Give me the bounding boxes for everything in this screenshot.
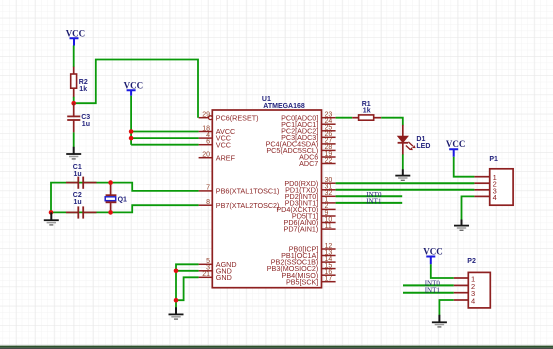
op-amp U1 body (ATMEGA168 ic outline) [212, 110, 321, 288]
svg-text:P2: P2 [467, 258, 476, 265]
junction dot GND pin3 [174, 269, 179, 274]
ground at crystal rails [44, 212, 59, 225]
wire PD1 to P1 pin3 [336, 189, 475, 191]
svg-text:PC6(RESET): PC6(RESET) [216, 113, 259, 122]
svg-text:P1: P1 [489, 156, 498, 163]
C3 value label 1u [82, 121, 90, 128]
ground under P1 [454, 220, 469, 231]
C2 name label [73, 192, 82, 199]
junction dot R2/C3 [71, 101, 76, 106]
ground under LED [395, 169, 410, 180]
svg-text:U1: U1 [262, 96, 271, 103]
R2 value label 1k [79, 86, 87, 93]
wire LED to ground [402, 154, 404, 169]
net label INT1 [366, 198, 382, 206]
connector P1 [474, 169, 513, 205]
wire INT0 net to P2 pin2 [403, 284, 454, 286]
ground below chip [169, 307, 184, 319]
svg-text:17: 17 [325, 276, 333, 283]
svg-text:VCC: VCC [66, 28, 86, 38]
U1 right pin numbers [325, 112, 333, 283]
C1 value label 1u [74, 171, 82, 178]
wire PD2 INT0 net stub [336, 195, 403, 197]
svg-text:LED: LED [416, 143, 430, 150]
wire PD3 INT1 net stub [336, 202, 403, 204]
C1 name label [73, 164, 82, 171]
svg-text:D1: D1 [416, 136, 425, 143]
wire VCC to R2 [73, 46, 75, 68]
svg-text:ATMEGA168: ATMEGA168 [263, 103, 305, 110]
R1 name label [362, 101, 371, 108]
U1 right pin names [266, 113, 319, 286]
junction dot crystal top [108, 180, 113, 185]
connector P2 [454, 272, 491, 308]
svg-text:29: 29 [202, 112, 210, 119]
supply VCC (top-left, feeds R2) [66, 28, 86, 45]
crystal Q1 [105, 183, 116, 213]
junction dot pin18 [129, 129, 134, 134]
resistor R1 [352, 115, 381, 120]
supply VCC (feeds P2 pin1) [423, 247, 443, 265]
wire C3 to ground [73, 132, 75, 147]
wire VCC to P2 pin1 [431, 264, 454, 278]
bottom window border [0, 346, 553, 348]
wire PC0 to R1 [336, 117, 353, 119]
svg-text:6: 6 [206, 139, 210, 146]
svg-text:4: 4 [471, 297, 475, 306]
svg-text:ADC7: ADC7 [299, 159, 318, 168]
svg-text:AREF: AREF [216, 153, 236, 162]
wire INT1 net to P2 pin3 [403, 292, 454, 294]
Q1 name label [118, 197, 127, 204]
wire VCC to P1 pin1 [454, 157, 475, 177]
supply VCC (feeds P1 pin1) [446, 139, 466, 157]
capacitor C2 (plates in bottom rail) [66, 206, 97, 218]
P2 name label [467, 258, 476, 265]
svg-text:VCC: VCC [446, 139, 466, 149]
wire P2 pin4 to ground [439, 300, 453, 315]
svg-text:20: 20 [202, 152, 210, 159]
D1 name label [416, 136, 425, 143]
wire junction to pin29 (reset net) [74, 60, 198, 118]
svg-text:PB6(XTAL1TOSC1): PB6(XTAL1TOSC1) [216, 187, 280, 196]
svg-text:7: 7 [206, 185, 210, 192]
crystal circuit: wire XTAL1 top rail [51, 183, 199, 213]
svg-text:1k: 1k [363, 107, 371, 114]
svg-text:INT1: INT1 [425, 287, 441, 295]
wire P1 pin4 to ground [462, 196, 475, 219]
P2 pin numbers [471, 275, 475, 306]
U1 value label ATMEGA168 [263, 103, 305, 110]
svg-text:PD7(AIN1): PD7(AIN1) [284, 225, 319, 234]
svg-text:C2: C2 [73, 192, 82, 199]
svg-text:1k: 1k [79, 86, 87, 93]
C2 value label 1u [74, 199, 82, 206]
svg-text:8: 8 [206, 199, 210, 206]
svg-text:1u: 1u [82, 121, 90, 128]
capacitor C3 [67, 103, 80, 132]
D1 value label LED [416, 143, 430, 150]
ground under P2 [432, 315, 447, 327]
svg-text:C3: C3 [81, 114, 90, 121]
U1 left pin stubs [199, 118, 213, 278]
svg-text:4: 4 [493, 193, 497, 202]
svg-text:C1: C1 [73, 164, 82, 171]
junction dot GND pin21 [174, 298, 179, 303]
net label INT1 at P2 [425, 287, 441, 295]
svg-text:Q1: Q1 [118, 197, 127, 204]
P1 name label [489, 156, 498, 163]
LED D1 [398, 125, 416, 155]
wire XTAL2 bottom rail [51, 205, 199, 212]
svg-text:INT1: INT1 [366, 198, 382, 206]
junction dot crystal bottom [108, 210, 113, 215]
wire R2 to junction [73, 97, 75, 103]
wire VCC to pins 18/4/6 [131, 96, 199, 145]
wire PD0 to P1 pin2 [336, 182, 475, 184]
resistor R2 [71, 67, 77, 98]
svg-text:VCC: VCC [216, 140, 231, 149]
svg-text:VCC: VCC [124, 80, 144, 90]
capacitor C1 (plates in top rail) [66, 177, 97, 189]
wire R1 to LED [381, 118, 403, 126]
svg-text:R2: R2 [79, 79, 88, 86]
junction dot crystal ground [49, 210, 54, 215]
U1 name label [262, 96, 271, 103]
net label INT0 at P2 [425, 280, 441, 288]
wire AGND/GND pins to ground [176, 264, 199, 308]
svg-text:1u: 1u [74, 199, 82, 206]
svg-text:PB5[SCK]: PB5[SCK] [286, 277, 318, 286]
C3 name label [81, 114, 90, 121]
svg-text:PB7(XTAL2TOSC2): PB7(XTAL2TOSC2) [216, 201, 280, 210]
svg-text:VCC: VCC [423, 247, 443, 257]
P1 pin numbers [493, 173, 497, 202]
ground under C3 [66, 147, 81, 159]
svg-text:11: 11 [325, 223, 332, 230]
U1 right pin stubs [322, 118, 336, 282]
svg-text:21: 21 [202, 271, 210, 278]
svg-text:22: 22 [325, 157, 333, 164]
U1 pin 29 reset inversion bubble [209, 116, 213, 120]
net label INT0 [366, 191, 382, 199]
U1 left pin numbers [202, 112, 210, 279]
junction dot pin4 [129, 136, 134, 141]
R1 value label 1k [363, 107, 371, 114]
svg-text:GND: GND [216, 273, 232, 282]
U1 left pin names [216, 113, 280, 282]
svg-text:1u: 1u [74, 171, 82, 178]
R2 name label [79, 79, 88, 86]
supply VCC (feeds AVCC/VCC pins) [124, 80, 144, 96]
